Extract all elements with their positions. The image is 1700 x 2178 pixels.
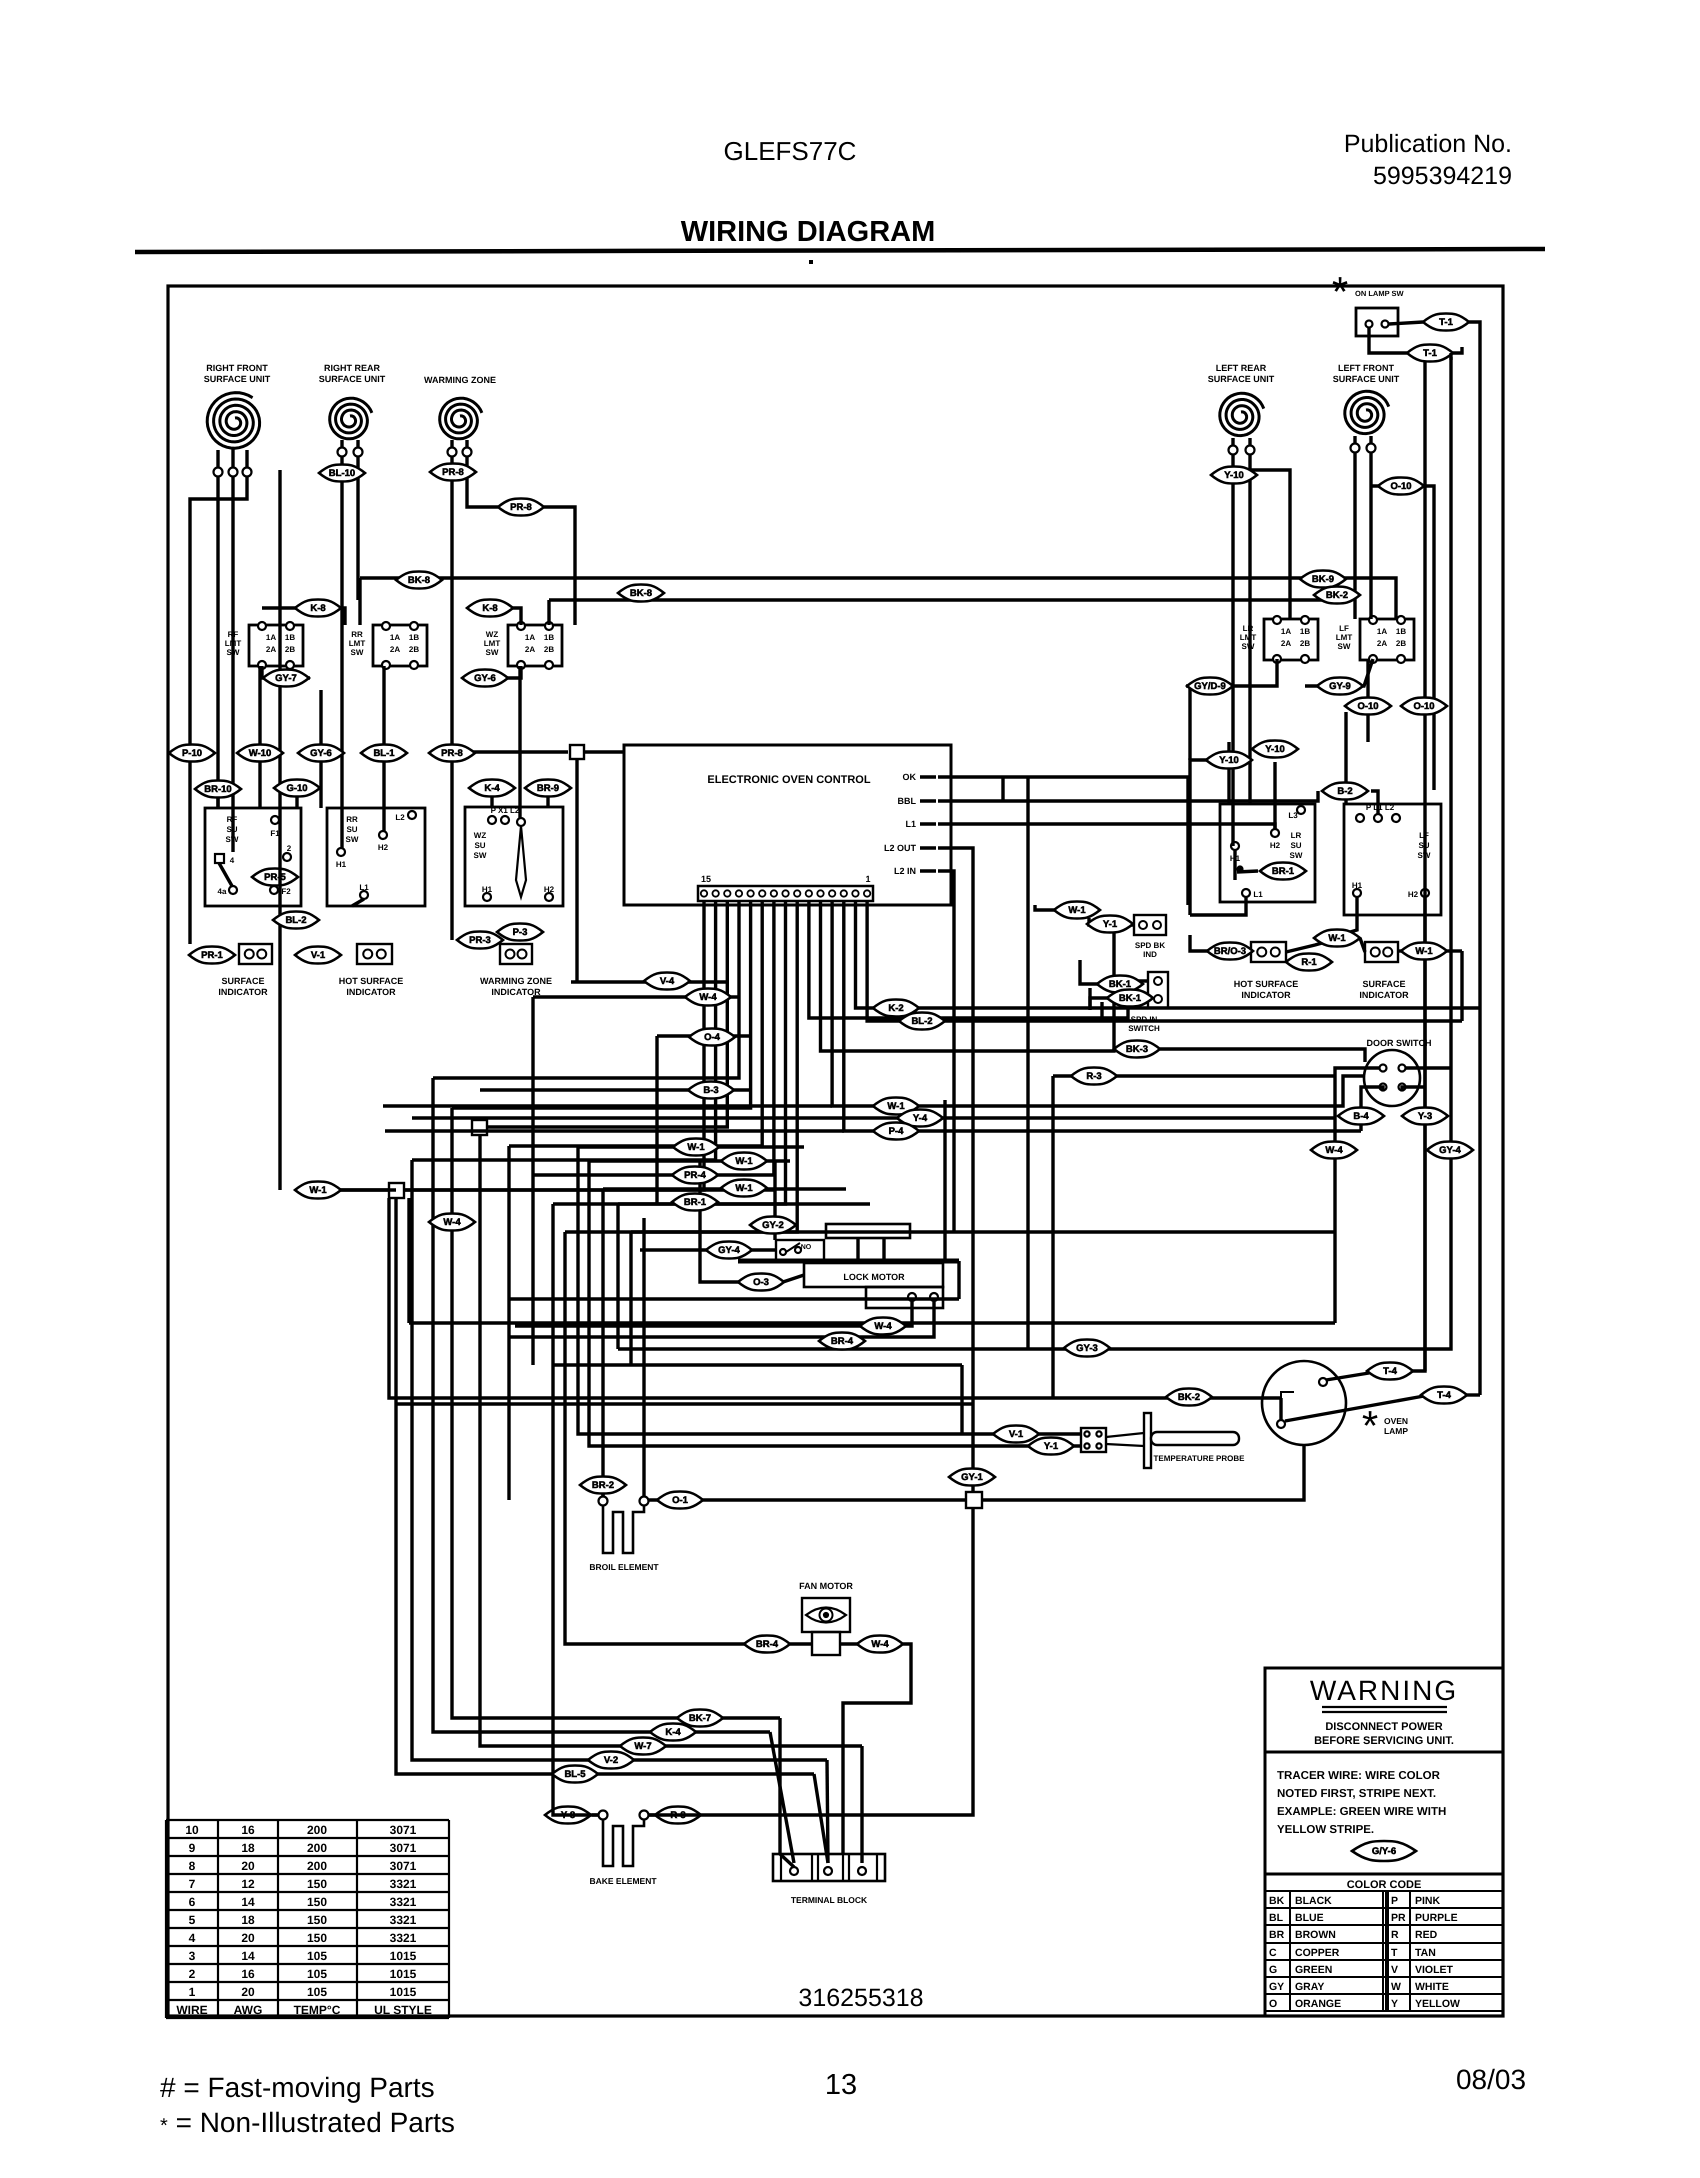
- wire: [262, 608, 345, 625]
- terminal block divider 3: [817, 1854, 819, 1881]
- svg-text:2A: 2A: [525, 645, 535, 654]
- wire: [1100, 1002, 1103, 1021]
- EOC pin 3: [841, 890, 847, 896]
- wire: [385, 1129, 844, 1132]
- surface switch LF body: [1344, 804, 1441, 915]
- oven lamp body: [1262, 1361, 1346, 1445]
- wire: [773, 1161, 776, 1240]
- svg-text:V-4: V-4: [660, 976, 675, 987]
- wire: [301, 751, 321, 754]
- wire: [1330, 897, 1357, 938]
- limit switch WZ body: [508, 625, 562, 666]
- svg-text:BK-8: BK-8: [408, 575, 430, 586]
- connector label G/Y-6: [1352, 1841, 1416, 1861]
- svg-text:BR-4: BR-4: [831, 1336, 854, 1347]
- wire: [358, 578, 361, 625]
- svg-text:G/Y-6: G/Y-6: [1372, 1846, 1396, 1857]
- wire: [1432, 712, 1435, 790]
- connector label GY-1: [949, 1469, 995, 1486]
- wire: [507, 1146, 510, 1500]
- electronic oven control box: [624, 745, 951, 905]
- lock motor terminal 2: [930, 1293, 938, 1301]
- svg-text:BROWN: BROWN: [1295, 1929, 1336, 1941]
- wire: [360, 578, 1396, 619]
- svg-text:316255318: 316255318: [798, 1984, 923, 2012]
- svg-text:PINK: PINK: [1415, 1895, 1441, 1907]
- connector label BL-5: [552, 1766, 598, 1783]
- svg-text:TEMP°C: TEMP°C: [294, 2003, 341, 2017]
- svg-text:WARMING ZONEINDICATOR: WARMING ZONEINDICATOR: [480, 976, 552, 997]
- svg-text:TEMPERATURE PROBE: TEMPERATURE PROBE: [1154, 1454, 1246, 1463]
- connector label BK-1: [1107, 990, 1153, 1007]
- svg-text:GY-3: GY-3: [1076, 1343, 1098, 1354]
- EOC pin 13: [724, 890, 730, 896]
- svg-text:O-10: O-10: [1413, 701, 1434, 712]
- svg-text:HOT SURFACEINDICATOR: HOT SURFACEINDICATOR: [339, 976, 404, 997]
- door switch pin 4: [1399, 1084, 1406, 1091]
- fan motor body: [802, 1598, 850, 1632]
- terminal block divider 2: [811, 1854, 813, 1881]
- wire: [1053, 1074, 1335, 1077]
- RF coil terminal 1: [214, 468, 223, 477]
- limit switch RR pin 1B: [410, 622, 418, 630]
- RF SU SW pin 4: [215, 854, 224, 863]
- terminal block divider 6: [876, 1854, 878, 1881]
- svg-text:Y-1: Y-1: [1103, 919, 1118, 930]
- EOC pin 8: [782, 890, 788, 896]
- surface indicator lamp right lamp a: [1371, 948, 1380, 957]
- fan motor eye outline: [806, 1608, 846, 1623]
- lock switch pin a: [780, 1249, 786, 1255]
- LR coil terminal 2: [1246, 446, 1255, 455]
- svg-text:18: 18: [241, 1841, 255, 1855]
- EOC terminal stub L2 IN: [920, 869, 936, 873]
- RF SU SW pin 4a: [229, 886, 237, 894]
- wire: [553, 1204, 598, 1815]
- connector label PR-8: [498, 499, 544, 516]
- wire: [1305, 659, 1373, 686]
- svg-text:BK: BK: [1269, 1895, 1285, 1907]
- wire: [1366, 712, 1369, 742]
- svg-text:2A: 2A: [1281, 639, 1291, 648]
- limit switch LR pin 2B: [1301, 655, 1309, 663]
- wire: [1333, 1232, 1336, 1323]
- svg-text:B-4: B-4: [1353, 1111, 1369, 1122]
- svg-text:18: 18: [241, 1913, 255, 1927]
- terminal block divider 1: [780, 1854, 782, 1881]
- wire: [430, 751, 452, 754]
- spd in switch pin b: [1154, 995, 1162, 1003]
- svg-text:1015: 1015: [390, 1967, 417, 1981]
- wire: [340, 456, 343, 848]
- door switch pin 3: [1380, 1084, 1387, 1091]
- wire: [383, 1104, 832, 1107]
- RF SU SW contact arm: [219, 863, 232, 886]
- svg-text:PR-4: PR-4: [684, 1170, 706, 1181]
- svg-text:GY: GY: [1269, 1981, 1284, 1993]
- wire: [297, 1188, 396, 1191]
- connector label R-3: [1071, 1068, 1117, 1085]
- svg-text:5995394219: 5995394219: [1373, 162, 1512, 190]
- wire: [396, 1198, 814, 1774]
- connector label BL-1: [361, 745, 407, 762]
- svg-text:VIOLET: VIOLET: [1415, 1964, 1454, 1976]
- svg-text:*: *: [1332, 268, 1348, 315]
- WZ coil lead wire 2: [465, 440, 468, 448]
- svg-text:H1: H1: [482, 885, 493, 894]
- wire: [649, 1813, 655, 1816]
- wire: [487, 901, 727, 1127]
- wire: [412, 1116, 1335, 1119]
- wire: [1285, 1396, 1424, 1421]
- svg-text:K-4: K-4: [484, 783, 500, 794]
- wire: [1089, 918, 1099, 925]
- svg-text:GY/D-9: GY/D-9: [1194, 681, 1226, 692]
- wire gauge table grid: [166, 1820, 449, 2018]
- connector label K-8: [467, 600, 513, 617]
- svg-text:WARMING ZONE: WARMING ZONE: [424, 375, 496, 385]
- svg-text:W-7: W-7: [634, 1741, 651, 1752]
- svg-text:14: 14: [241, 1895, 255, 1909]
- EOC pin 6: [806, 890, 812, 896]
- svg-text:AWG: AWG: [234, 2003, 263, 2017]
- svg-text:1B: 1B: [285, 633, 295, 642]
- wire: [809, 901, 1148, 1018]
- wire: [843, 1644, 911, 1854]
- wire: [433, 901, 739, 1078]
- svg-text:150: 150: [307, 1895, 327, 1909]
- lock motor body: [804, 1263, 943, 1287]
- svg-text:BR: BR: [1269, 1929, 1285, 1941]
- connector label Y-1: [1028, 1438, 1074, 1455]
- limit switch RR body: [373, 625, 427, 666]
- svg-text:GRAY: GRAY: [1295, 1981, 1324, 1993]
- svg-text:1B: 1B: [1396, 627, 1406, 636]
- wire: [389, 1198, 1281, 1398]
- svg-text:BR/O-3: BR/O-3: [1214, 946, 1246, 957]
- EOC pin 10: [759, 890, 765, 896]
- svg-text:H2: H2: [1270, 841, 1281, 850]
- svg-text:W-10: W-10: [249, 748, 272, 759]
- WZ coil terminal 1: [448, 448, 457, 457]
- wire: [509, 1297, 959, 1300]
- RR SU SW pin L1: [360, 891, 368, 899]
- svg-text:H1: H1: [1352, 881, 1363, 890]
- connector label BK-8: [618, 585, 664, 602]
- svg-text:150: 150: [307, 1877, 327, 1891]
- wire: [1026, 777, 1029, 1349]
- svg-text:L2: L2: [395, 813, 405, 822]
- limit switch WZ pin 1A: [517, 622, 525, 630]
- connector label BK-1: [1097, 976, 1143, 993]
- wire: [1051, 1076, 1054, 1398]
- limit switch RR pin 1A: [382, 622, 390, 630]
- svg-text:PR-8: PR-8: [441, 748, 463, 759]
- wire: [770, 1732, 794, 1863]
- svg-text:3: 3: [189, 1949, 196, 1963]
- svg-text:RRSUSW: RRSUSW: [346, 815, 359, 844]
- svg-text:1A: 1A: [390, 633, 400, 642]
- fan motor lead right: [840, 1642, 862, 1645]
- LR SU SW pin L3: [1297, 806, 1305, 814]
- wire: [1233, 850, 1236, 880]
- connector label BR-1: [1260, 863, 1306, 880]
- wire: [515, 1301, 912, 1326]
- svg-text:G-10: G-10: [286, 783, 307, 794]
- wire: [1190, 897, 1246, 915]
- svg-text:O: O: [1269, 1998, 1277, 2010]
- svg-text:1A: 1A: [1281, 627, 1291, 636]
- wire: [655, 1036, 658, 1204]
- svg-text:L1: L1: [905, 819, 916, 829]
- wire: [1080, 960, 1099, 984]
- lock switch arm: [786, 1243, 800, 1252]
- surface switch RF body: [205, 808, 301, 906]
- wire: [943, 1100, 946, 1259]
- wire: [1360, 938, 1365, 952]
- wire: [450, 456, 453, 940]
- connector label B-3: [688, 1082, 734, 1099]
- wire: [657, 1034, 751, 1037]
- svg-text:BK-3: BK-3: [1126, 1044, 1148, 1055]
- terminal block divider 5: [848, 1854, 850, 1881]
- connector label Y-4: [897, 1110, 943, 1127]
- svg-text:RIGHT FRONTSURFACE UNIT: RIGHT FRONTSURFACE UNIT: [204, 363, 271, 384]
- temp probe connector: [1081, 1428, 1106, 1452]
- svg-text:BL-2: BL-2: [911, 1016, 932, 1027]
- svg-text:1: 1: [189, 1985, 196, 1999]
- connector label BR/O-3: [1207, 943, 1253, 960]
- svg-text:T: T: [1391, 1947, 1398, 1959]
- svg-text:T-1: T-1: [1423, 348, 1437, 359]
- svg-text:2A: 2A: [1377, 639, 1387, 648]
- svg-text:RED: RED: [1415, 1929, 1438, 1941]
- wire: [1369, 500, 1372, 619]
- svg-text:GLEFS77C: GLEFS77C: [724, 136, 857, 166]
- connector label W-1: [1401, 943, 1447, 960]
- svg-text:O-10: O-10: [1390, 481, 1411, 492]
- svg-text:SPD INSWITCH: SPD INSWITCH: [1128, 1015, 1160, 1033]
- LF coil lead wire: [1353, 436, 1356, 444]
- svg-text:2B: 2B: [544, 645, 554, 654]
- wire: [1402, 1087, 1425, 1091]
- svg-text:BL-5: BL-5: [564, 1769, 586, 1780]
- surface switch WZ body: [465, 807, 563, 906]
- connector label GY/D-9: [1187, 678, 1233, 695]
- hot surface indicator lamp right lamp a: [1257, 948, 1266, 957]
- svg-text:P-4: P-4: [889, 1126, 905, 1137]
- connector label BK-9: [1300, 571, 1346, 588]
- limit switch RF pin 1A: [258, 622, 266, 630]
- lock motor cam stem 2: [882, 1238, 885, 1259]
- connector label PR-3: [457, 932, 503, 949]
- svg-text:GY-6: GY-6: [310, 748, 332, 759]
- junction: [966, 1492, 982, 1508]
- connector label GY-7: [263, 670, 309, 687]
- EOC terminal stub L2 OUT: [920, 846, 936, 850]
- svg-text:L1: L1: [1253, 890, 1263, 899]
- svg-text:BK-2: BK-2: [1178, 1392, 1200, 1403]
- wire gauge table text: [176, 1823, 432, 2017]
- svg-text:TERMINAL BLOCK: TERMINAL BLOCK: [791, 1895, 868, 1905]
- svg-text:1015: 1015: [390, 1949, 417, 1963]
- wire: [1478, 585, 1481, 1395]
- EOC terminal stub BBL: [920, 799, 936, 803]
- connector label Y-1: [1087, 916, 1133, 933]
- RR coil lead wire 2: [356, 440, 359, 448]
- wire: [278, 470, 281, 1190]
- broil element terminal 1: [599, 1497, 608, 1506]
- LF coil terminal 1: [1351, 444, 1360, 453]
- svg-text:G: G: [1269, 1964, 1277, 1976]
- LR SU SW contact dot: [1238, 867, 1243, 872]
- svg-text:16: 16: [241, 1967, 255, 1981]
- wire: [1188, 686, 1191, 760]
- limit switch RF pin 2A: [258, 661, 266, 669]
- svg-text:W-1: W-1: [735, 1183, 753, 1194]
- connector label V-4: [644, 973, 690, 990]
- connector label BK-3: [1114, 1041, 1160, 1058]
- wire: [601, 1478, 604, 1497]
- door switch pin 1: [1380, 1065, 1387, 1072]
- wire: [982, 1446, 1304, 1500]
- wire: [1371, 791, 1378, 814]
- connector label GY-2: [750, 1217, 796, 1234]
- svg-text:150: 150: [307, 1913, 327, 1927]
- svg-text:2: 2: [189, 1967, 196, 1981]
- limit switch WZ pin 1B: [545, 622, 553, 630]
- connector label PR-4: [672, 1167, 718, 1184]
- hot surface indicator lamp lamp b: [377, 950, 386, 959]
- svg-text:2A: 2A: [266, 645, 276, 654]
- svg-text:14: 14: [241, 1949, 255, 1963]
- wire: [938, 871, 954, 1232]
- oven lamp pin 1: [1319, 1378, 1327, 1386]
- svg-text:Publication No.: Publication No.: [1344, 130, 1512, 158]
- warming zone indicator lamp lamp a: [506, 950, 515, 959]
- surface switch RR body: [327, 808, 425, 906]
- connector label P-3: [497, 924, 543, 941]
- hot surface indicator lamp body: [357, 944, 392, 964]
- svg-text:O-10: O-10: [1357, 701, 1378, 712]
- svg-text:RRLMTSW: RRLMTSW: [349, 630, 366, 657]
- EOC pin 15: [701, 890, 707, 896]
- wire: [1279, 1398, 1282, 1420]
- WZ SU SW pin L2: [517, 818, 525, 826]
- WZ SU SW pin H1: [483, 893, 491, 901]
- svg-text:W-1: W-1: [1415, 946, 1433, 957]
- connector label W-7: [620, 1738, 666, 1755]
- svg-text:BK-8: BK-8: [630, 588, 652, 599]
- svg-text:BL-2: BL-2: [285, 915, 306, 926]
- svg-text:16: 16: [241, 1823, 255, 1837]
- connector label W-4: [860, 1318, 906, 1335]
- svg-text:WIRE: WIRE: [176, 2003, 207, 2017]
- connector label BR-1: [672, 1194, 718, 1211]
- EOC pin 14: [712, 890, 718, 896]
- wire: [190, 751, 213, 754]
- small dot: [809, 260, 813, 264]
- wire: [465, 666, 521, 678]
- svg-text:WHITE: WHITE: [1415, 1981, 1449, 1993]
- lock motor cam stem: [856, 1238, 859, 1259]
- svg-text:200: 200: [307, 1841, 327, 1855]
- connector label BL-2: [273, 912, 319, 929]
- wire: [452, 901, 751, 1108]
- svg-text:Y: Y: [1391, 1998, 1398, 2010]
- wire: [1290, 598, 1337, 601]
- svg-text:1A: 1A: [266, 633, 276, 642]
- svg-text:*: *: [1362, 1402, 1378, 1449]
- svg-text:W-4: W-4: [443, 1217, 461, 1228]
- LF SU SW pin H1: [1353, 889, 1361, 897]
- svg-text:ON LAMP SW: ON LAMP SW: [1355, 289, 1405, 298]
- wire: [190, 476, 247, 944]
- wire: [553, 1363, 962, 1366]
- svg-text:TAN: TAN: [1415, 1947, 1436, 1959]
- wire: [404, 1188, 775, 1191]
- svg-text:200: 200: [307, 1823, 327, 1837]
- color code table text: [1269, 1895, 1460, 2010]
- door switch pin 2: [1399, 1065, 1406, 1072]
- svg-text:BLACK: BLACK: [1295, 1895, 1332, 1907]
- connector label BR-2: [580, 1477, 626, 1494]
- svg-text:1A: 1A: [525, 633, 535, 642]
- RR coil terminal 1: [338, 448, 347, 457]
- connector label W-1: [295, 1182, 341, 1199]
- wire: [1449, 353, 1452, 360]
- lock motor lower terminal block: [866, 1287, 943, 1308]
- svg-text:GY-4: GY-4: [718, 1245, 740, 1256]
- junction: [389, 1183, 404, 1198]
- connector label W-4: [685, 989, 731, 1006]
- limit switch RR pin 2B: [410, 661, 418, 669]
- svg-text:FAN MOTOR: FAN MOTOR: [799, 1581, 853, 1591]
- wire: [553, 901, 786, 1204]
- svg-text:2: 2: [287, 844, 292, 853]
- wire: [1273, 762, 1276, 829]
- RF SU SW pin F1: [271, 816, 279, 824]
- connector label P-10: [169, 745, 215, 762]
- wire: [856, 901, 1481, 1008]
- connector label O-3: [738, 1274, 784, 1291]
- EOC pin 12: [736, 890, 742, 896]
- wire: [262, 666, 310, 678]
- svg-text:PR-1: PR-1: [201, 950, 223, 961]
- wire: [618, 357, 1451, 1349]
- connector label W-1: [1054, 902, 1100, 919]
- svg-text:1B: 1B: [409, 633, 419, 642]
- wire: [1366, 659, 1369, 700]
- wire: [631, 1230, 1335, 1233]
- WZ SU SW pin H2: [545, 893, 553, 901]
- connector label O-10: [1378, 478, 1424, 495]
- svg-text:13: 13: [825, 2069, 857, 2101]
- diagram border frame: [168, 286, 1503, 2016]
- wire: [407, 1198, 410, 1323]
- EOC pin 5: [817, 890, 823, 896]
- svg-text:PR-5: PR-5: [264, 872, 286, 883]
- svg-text:Y-4: Y-4: [913, 1113, 928, 1124]
- wire: [780, 1718, 794, 1867]
- wire: [783, 1275, 804, 1282]
- limit switch LF body: [1360, 619, 1414, 660]
- svg-text:15: 15: [701, 874, 711, 884]
- svg-text:200: 200: [307, 1859, 327, 1873]
- svg-text:W-4: W-4: [699, 992, 717, 1003]
- wire: [832, 901, 1363, 1106]
- wire: [1227, 742, 1230, 753]
